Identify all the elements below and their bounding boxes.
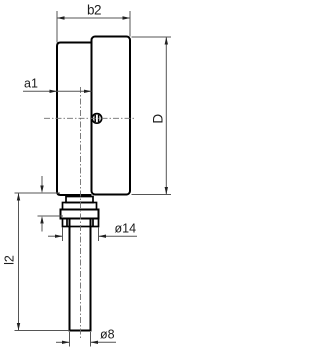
- dia8 arrow left: [62, 341, 70, 344]
- neck dimension upper arrow: [40, 186, 43, 194]
- dimension l2 line: [18, 193, 20, 331]
- D arrow bottom: [165, 187, 168, 195]
- dia8 dimension line left: [56, 341, 70, 343]
- horizontal centerline (dial axis): [44, 117, 134, 119]
- svg-text:b2: b2: [87, 3, 101, 18]
- dia14 dimension line right: [99, 235, 138, 237]
- case bezel (dial front): [92, 37, 131, 195]
- nut band 3: [61, 210, 99, 219]
- neck band 1: [66, 197, 93, 203]
- b2 arrow right: [123, 16, 131, 19]
- screw hatch: [94, 115, 96, 122]
- b2 extension left: [56, 11, 58, 43]
- l2 extension bottom: [15, 330, 70, 332]
- neck dimension lower arrow: [40, 216, 43, 224]
- svg-text:a1: a1: [24, 77, 38, 91]
- svg-text:D: D: [151, 114, 166, 124]
- neck dimension upper arrow tail: [41, 176, 43, 187]
- dia14 extension stub right: [98, 228, 100, 242]
- adjusting screw circle: [92, 114, 102, 124]
- dia8 arrow right: [91, 341, 99, 344]
- l2 arrow bottom: [17, 323, 20, 331]
- svg-text:l2: l2: [3, 255, 17, 265]
- dimension a1 line: [23, 90, 92, 92]
- svg-text:ø14: ø14: [115, 222, 137, 236]
- dia8 dimension line right: [91, 341, 117, 343]
- a1 arrow at seam: [84, 90, 92, 93]
- hex band 4: [63, 219, 99, 227]
- vertical centerline (stem axis): [80, 87, 82, 338]
- svg-text:ø8: ø8: [100, 328, 115, 342]
- neck flange band 2: [63, 203, 97, 210]
- neck dimension lower arrow tail: [41, 223, 43, 232]
- dia14 arrow right: [99, 235, 107, 238]
- b2 arrow left: [57, 16, 65, 19]
- hex facet line right: [92, 219, 94, 227]
- a1 arrow at back face: [50, 90, 58, 93]
- dimension D extension top: [132, 36, 172, 38]
- dia14 extension stub left: [62, 228, 64, 242]
- dia8 extension stub left: [69, 332, 71, 347]
- dimension D extension bottom: [132, 194, 172, 196]
- case back body: [57, 43, 92, 196]
- dia14 arrow left: [55, 235, 63, 238]
- dimension b2 line: [57, 17, 130, 19]
- dimension D line: [165, 37, 167, 195]
- dia8 extension stub right: [90, 332, 92, 347]
- l2 extension top: [15, 192, 61, 194]
- b2 extension right: [129, 11, 131, 37]
- l2 arrow top: [17, 193, 20, 201]
- dia14 dimension line left: [48, 235, 63, 237]
- neck dimension extension line: [38, 215, 64, 217]
- stem: [70, 219, 91, 331]
- hex facet line left: [66, 219, 68, 227]
- D arrow top: [165, 37, 168, 45]
